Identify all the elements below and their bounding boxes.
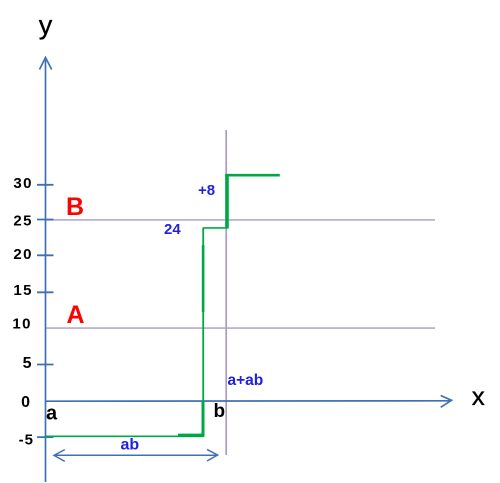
svg-text:+8: +8 — [198, 182, 215, 199]
svg-text:0: 0 — [21, 394, 30, 411]
svg-text:10: 10 — [12, 315, 32, 332]
x-axis arrowhead — [441, 396, 452, 408]
green step: thick riser (+8 jump) at x=227 — [225, 174, 229, 228]
svg-text:x: x — [472, 381, 485, 411]
dimension arrow right head — [207, 449, 218, 461]
svg-text:5: 5 — [23, 355, 32, 372]
svg-text:20: 20 — [13, 246, 33, 263]
tick y=15 — [37, 291, 54, 293]
svg-text:a+ab: a+ab — [228, 372, 264, 389]
dimension double arrow line (ab span) — [55, 454, 218, 456]
svg-text:25: 25 — [13, 212, 33, 229]
dimension arrow left head — [54, 450, 65, 462]
green step: overdrawn thicker part of riser — [202, 245, 205, 312]
green step: segment at y=-5 — [45, 435, 204, 437]
y-axis line — [45, 58, 47, 482]
svg-text:ab: ab — [121, 437, 140, 454]
svg-text:y: y — [39, 10, 53, 40]
gridline y=10 (line A) — [46, 327, 436, 329]
green step: overdrawn thicker part of y=-5 segment — [178, 434, 204, 437]
svg-text:b: b — [214, 401, 226, 422]
vertical line at x=b (lavender) — [225, 130, 227, 455]
x-axis line — [46, 400, 452, 402]
green step: short tread at y=24 — [203, 227, 227, 229]
svg-text:B: B — [66, 193, 84, 221]
svg-text:-5: -5 — [19, 431, 34, 448]
y-axis arrowhead — [40, 58, 52, 70]
tick y=20 — [37, 254, 54, 256]
green step: riser at x=203 from -5 up to 24 — [202, 228, 204, 437]
gridline y=25 (line B) — [46, 219, 436, 221]
tick y=25 — [37, 219, 54, 221]
tick y=30 — [37, 184, 54, 186]
svg-text:a: a — [46, 403, 58, 425]
green step: thick top segment at y=32 — [225, 174, 279, 177]
svg-text:24: 24 — [164, 221, 181, 238]
svg-text:15: 15 — [13, 282, 33, 299]
tick y=-5 — [37, 436, 54, 438]
svg-text:A: A — [67, 301, 85, 329]
tick y=5 — [37, 364, 54, 366]
green step: thicker riser portion below x-axis — [202, 401, 205, 437]
svg-text:30: 30 — [13, 175, 33, 192]
